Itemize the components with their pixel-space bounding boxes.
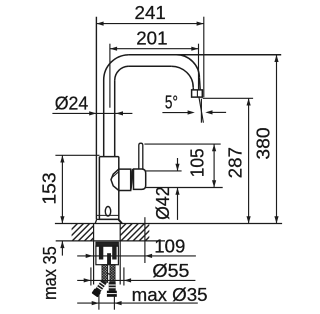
countertop bottom surface line	[56, 240, 165, 242]
spout outer top-left bend	[104, 55, 129, 80]
angle 5 plumb line	[200, 99, 202, 123]
arrow maxO35 left	[92, 301, 99, 305]
arrow 287 top	[247, 98, 251, 105]
body bottom line	[96, 218, 118, 220]
handle collar	[134, 169, 146, 189]
svg-text:241: 241	[135, 3, 166, 23]
arrow 380 bottom	[274, 216, 278, 223]
svg-text:max Ø35: max Ø35	[132, 285, 208, 305]
spout bottom line	[129, 65, 171, 67]
arrow O24 right	[116, 111, 123, 115]
dim 153 line	[61, 155, 63, 223]
angle 5 leader right	[212, 111, 226, 113]
spout top line with 380 extension	[129, 54, 281, 56]
arrow O55 left	[84, 278, 91, 282]
spout inner top-left bend	[115, 66, 129, 80]
dim 241 line	[96, 23, 203, 25]
svg-text:287: 287	[226, 147, 246, 178]
dim max35 line bottom	[61, 241, 63, 256]
arrow 109 right	[145, 254, 152, 258]
arrow 287 bottom	[247, 216, 251, 223]
countertop hatch right	[120, 224, 149, 241]
svg-text:Ø42: Ø42	[153, 186, 173, 220]
dim 287 line	[248, 98, 250, 223]
hose column left	[102, 265, 108, 283]
dim maxO35 extension right	[113, 294, 115, 310]
svg-text:Ø24: Ø24	[55, 93, 89, 113]
handle cone inner line	[112, 172, 119, 178]
svg-text:109: 109	[154, 236, 185, 256]
dim O55 line	[77, 279, 195, 281]
spout riser tube left edge	[103, 80, 105, 157]
handle lever rod	[139, 143, 143, 171]
dim maxO35 extension left	[98, 294, 100, 310]
body lower ring line	[96, 214, 118, 216]
arrow angle5 right	[205, 110, 212, 114]
spout outer top-right bend	[176, 55, 199, 78]
dim 201 line	[110, 48, 199, 50]
arrow 241 right	[197, 22, 204, 26]
arrow O55 right	[124, 278, 131, 282]
handle hub	[119, 169, 131, 190]
arrow 105 bottom	[212, 180, 216, 187]
arrow 201 right	[191, 47, 198, 51]
svg-text:5°: 5°	[165, 92, 178, 112]
dim 109 line	[77, 255, 196, 257]
spout inner top-right bend	[171, 66, 193, 87]
arrow 109 left	[86, 254, 93, 258]
countertop top surface line	[55, 223, 282, 225]
mounting bracket	[96, 246, 119, 265]
dim O55 extension right	[123, 267, 125, 285]
dim 241 extension left	[95, 17, 97, 220]
arrow 105 top	[212, 144, 216, 151]
svg-text:380: 380	[254, 127, 274, 159]
arrow O42 bottom	[175, 188, 179, 195]
handle band	[131, 169, 134, 190]
bracket right bar	[112, 246, 116, 259]
body base flange right	[119, 220, 122, 224]
dim 201 extension right	[198, 44, 200, 91]
aerator box	[192, 90, 203, 97]
dim 241 extension right	[203, 17, 205, 98]
counter hole left edge	[93, 224, 95, 285]
dim 105 line	[213, 144, 215, 187]
angle 5 leader left	[162, 112, 189, 114]
arrow 153 bottom	[60, 216, 64, 223]
dim 201 extension left	[109, 44, 111, 108]
svg-text:105: 105	[188, 148, 208, 177]
arrow 201 left	[110, 47, 117, 51]
dim 287 extension top	[203, 97, 253, 99]
faucet body	[99, 157, 118, 220]
svg-text:153: 153	[40, 172, 60, 204]
handle cone	[111, 169, 119, 190]
spout outlet right edge	[198, 78, 201, 90]
svg-text:201: 201	[136, 29, 167, 49]
dim 105 extension bottom	[146, 187, 223, 189]
arrow 241 left	[96, 22, 103, 26]
arrow O24 left	[89, 111, 96, 115]
mounting plate	[96, 242, 119, 246]
svg-text:max 35: max 35	[40, 246, 60, 300]
chevron mark	[107, 273, 110, 275]
dim O42 line top	[177, 158, 179, 171]
braided hose left	[91, 279, 107, 297]
arrow 153 top	[60, 155, 64, 162]
dim 153 extension	[55, 154, 99, 156]
bracket left bar	[99, 246, 103, 259]
arrow angle5 left	[188, 110, 195, 114]
svg-text:Ø55: Ø55	[152, 261, 189, 281]
arrow O42 top	[175, 164, 179, 171]
arrow 380 top	[274, 55, 278, 62]
dim O42 line bottom	[177, 188, 179, 220]
dim O55 extension left	[90, 267, 92, 285]
arrow maxO35 right	[114, 301, 121, 305]
dim maxO35 line	[77, 302, 198, 304]
countertop hatch left	[72, 224, 94, 241]
hose column right	[110, 265, 115, 283]
dim 105 extension top	[144, 143, 220, 145]
hose right nut	[107, 291, 117, 297]
angle 5 tilted axis	[199, 96, 204, 122]
spout outlet left edge	[192, 87, 194, 90]
arrow max35 bottom	[60, 241, 64, 248]
counter hole right edge	[119, 224, 121, 285]
dim 109 extension	[144, 217, 146, 263]
aerator divider	[196, 90, 198, 97]
bracket center stem	[107, 253, 111, 265]
logo oval	[105, 207, 110, 217]
dim O24 leader	[52, 112, 132, 114]
body base flange left	[95, 220, 96, 224]
dim 380 line	[276, 55, 278, 224]
spout riser tube right edge	[114, 80, 116, 156]
hose right shaft	[109, 282, 116, 291]
dim O42 tangent top	[146, 170, 182, 172]
